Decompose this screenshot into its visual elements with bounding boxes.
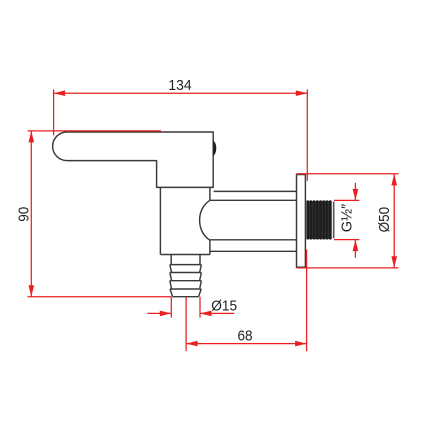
svg-text:68: 68 — [238, 328, 253, 345]
barb neck edges — [171, 255, 200, 265]
barb ring 4 — [170, 289, 201, 297]
thread right relief groove — [332, 202, 333, 238]
arrowhead 68 left — [186, 341, 198, 347]
body column right edge lower — [209, 240, 211, 254]
dia15 extension lines — [171, 297, 200, 318]
G1/2 male thread block — [306, 200, 334, 239]
barb ring 3 — [170, 281, 202, 289]
G1/2 dim arrow stems — [354, 183, 356, 258]
arrowhead 134 right — [296, 90, 308, 96]
svg-text:134: 134 — [168, 77, 191, 94]
dim 68 line — [186, 343, 307, 345]
dim 90 extension line top — [28, 130, 162, 132]
dim 90 extension line bottom — [28, 296, 172, 298]
dim 134 line — [54, 92, 308, 94]
body column right edge upper — [209, 187, 211, 200]
shared extension line right, lower segment (dim 68) — [306, 250, 308, 352]
dia50 extension lines — [296, 174, 398, 268]
handle index button lens — [213, 141, 216, 156]
body column left edge — [159, 187, 161, 254]
outlet centreline extension — [185, 297, 187, 351]
svg-text:Ø50: Ø50 — [376, 207, 393, 233]
body bottom face — [160, 254, 210, 256]
arrowhead dia15 right — [200, 311, 212, 317]
arrowhead G1/2 top — [353, 189, 359, 201]
spout tube bottom line — [210, 239, 297, 241]
dim 90 line — [30, 131, 32, 297]
arrowhead G1/2 bottom — [353, 240, 359, 252]
dia50 dim line — [393, 174, 395, 268]
outer sleeve top line — [214, 190, 297, 192]
barb bottom face — [173, 296, 199, 298]
barb ring 1 — [170, 265, 202, 273]
dia15 dim segments — [148, 312, 235, 314]
arrowhead 90 bottom — [29, 285, 35, 297]
shared extension line right, upper segment (dim 134) — [306, 89, 308, 181]
svg-text:Ø15: Ø15 — [211, 297, 237, 314]
barb ring 2 — [170, 273, 202, 281]
arrowhead 68 right — [295, 341, 307, 347]
arrowhead dia50 bottom — [391, 256, 397, 268]
arrowhead 90 top — [29, 131, 35, 143]
body fillet arc at spout junction — [200, 200, 210, 240]
arrowhead dia15 left — [160, 311, 172, 317]
G1/2 extension lines — [334, 200, 359, 239]
arrowhead dia50 top — [391, 174, 397, 186]
tap handle lever with bonnet (silhouette) — [53, 132, 214, 187]
arrowhead 134 left — [54, 90, 66, 96]
wall escutcheon plate — [297, 175, 306, 268]
dim 134 extension line left — [53, 89, 55, 135]
outer sleeve bottom line — [210, 250, 297, 252]
svg-text:90: 90 — [15, 207, 32, 222]
svg-text:G½″: G½″ — [339, 203, 356, 232]
spout tube top line — [210, 199, 297, 201]
